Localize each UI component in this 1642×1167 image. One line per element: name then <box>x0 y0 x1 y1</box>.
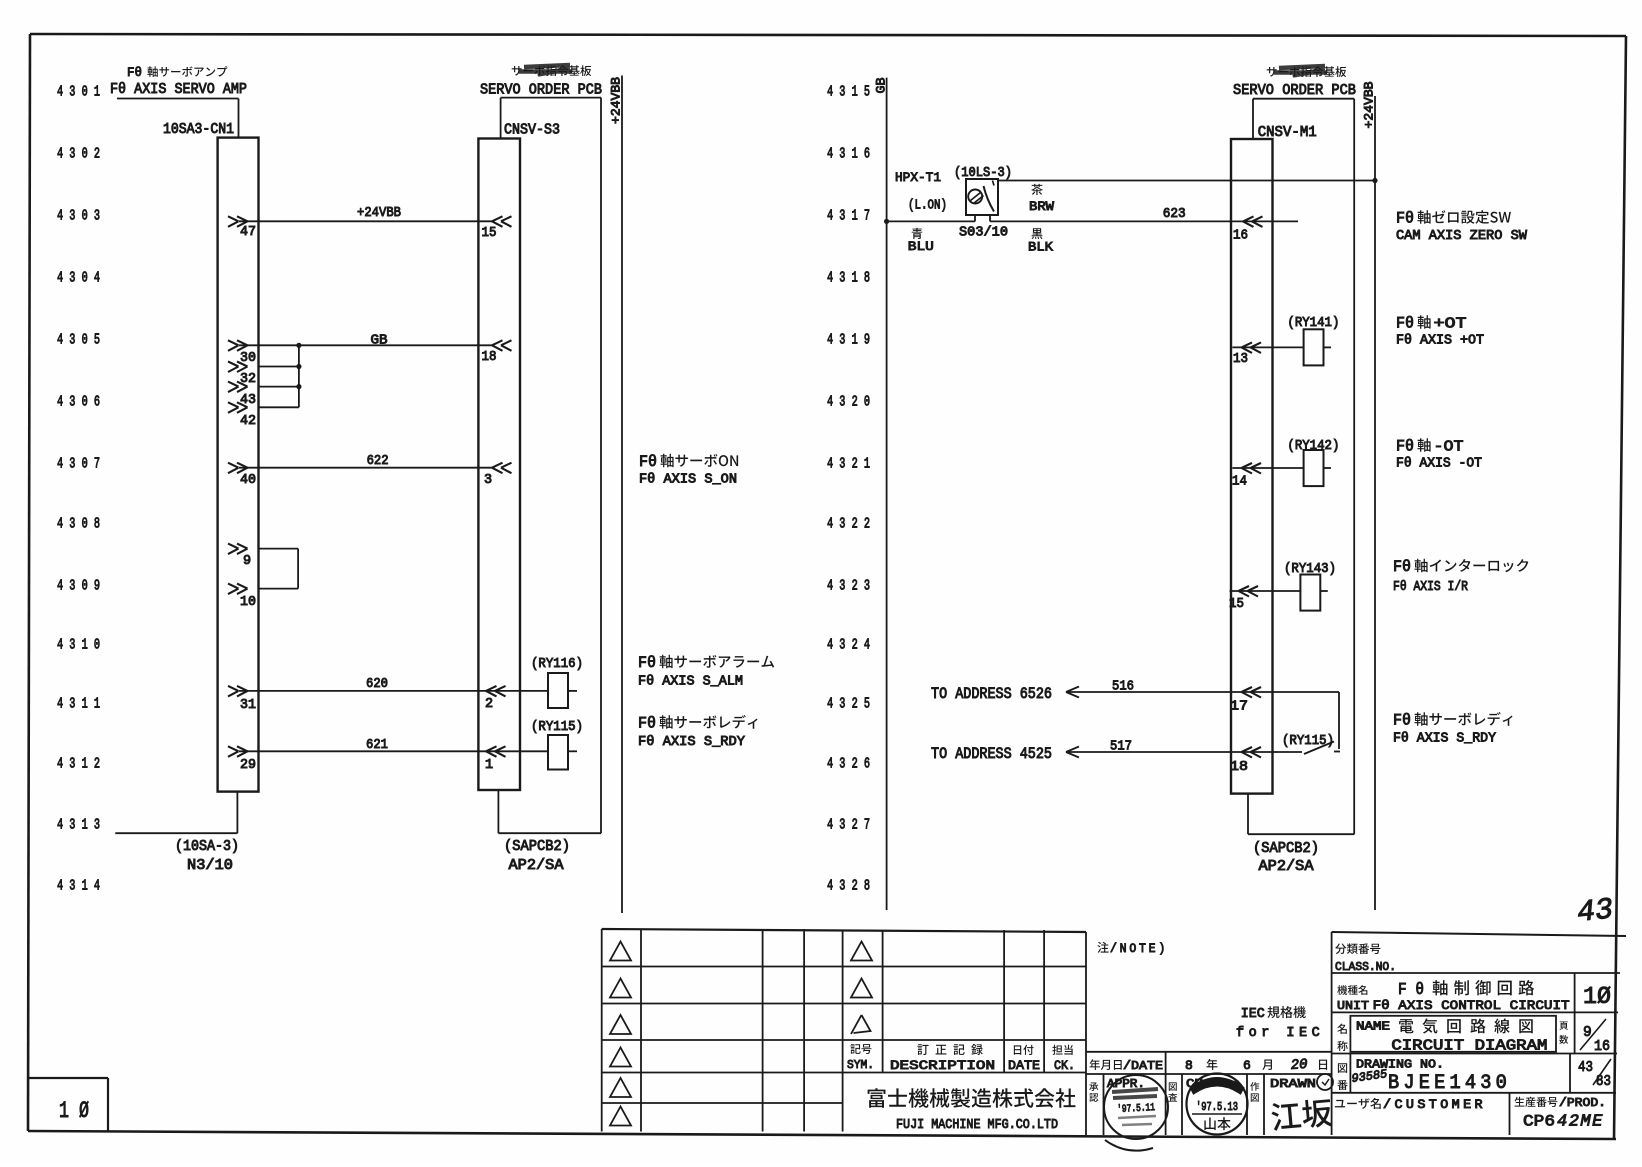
svg-text:/DATE: /DATE <box>1123 1059 1163 1073</box>
svg-text:10: 10 <box>240 595 256 610</box>
svg-text:4 3 0 4: 4 3 0 4 <box>57 271 100 287</box>
unit row <box>1337 985 1347 995</box>
svg-text:'97.5.11: '97.5.11 <box>1117 1102 1156 1116</box>
revision triangles left <box>610 942 631 961</box>
svg-text:(10SA-3): (10SA-3) <box>175 839 239 855</box>
svg-text:42ME: 42ME <box>1557 1113 1604 1132</box>
svg-text:DESCRIPTION: DESCRIPTION <box>890 1059 995 1073</box>
company name <box>868 1088 886 1107</box>
wire pin14 to relay RY142 <box>1232 467 1303 469</box>
svg-text:Fθ AXIS CONTROL CIRCUIT: Fθ AXIS CONTROL CIRCUIT <box>1373 998 1570 1013</box>
svg-text:+24VBB: +24VBB <box>357 206 401 221</box>
wire 620 pin31 to relay RY116 <box>239 690 548 692</box>
label servo order PCB (right, Japanese smudged) <box>1267 67 1277 77</box>
svg-text:Fθ AXIS S_ALM: Fθ AXIS S_ALM <box>638 675 743 690</box>
svg-text:+24VBB: +24VBB <box>609 77 624 124</box>
note box <box>1097 942 1108 953</box>
wire pin13 to relay RY141 <box>1232 346 1303 348</box>
SAPCB2 tail (left) <box>497 790 499 833</box>
svg-text:Fθ AXIS S_RDY: Fθ AXIS S_RDY <box>1393 732 1496 747</box>
svg-text:CK.: CK. <box>1054 1059 1075 1073</box>
svg-text:1Ø: 1Ø <box>1583 984 1611 1011</box>
sheet number box 10 <box>28 1077 108 1079</box>
revision triangles middle <box>851 942 872 961</box>
servo order PCB bracket (left) <box>501 97 601 99</box>
border frame <box>30 34 1626 36</box>
wire 622 pin40 to pin3 <box>239 467 492 469</box>
svg-text:623: 623 <box>1163 207 1186 222</box>
svg-text:(RY142): (RY142) <box>1287 439 1339 454</box>
customer row <box>1335 1100 1345 1108</box>
svg-text:Fθ: Fθ <box>1396 438 1414 456</box>
svg-text:4 3 2 8: 4 3 2 8 <box>827 879 870 895</box>
handwritten sheet mark 43 <box>1575 893 1614 931</box>
pin 43 stub <box>259 386 299 388</box>
svg-text:40: 40 <box>240 473 256 488</box>
svg-text:AP2/SA: AP2/SA <box>1259 859 1314 875</box>
pin 42 stub <box>259 406 299 408</box>
svg-text:Fθ AXIS -OT: Fθ AXIS -OT <box>1396 457 1482 472</box>
10SA-3 cable tail <box>236 792 238 834</box>
svg-text:4 3 1 1: 4 3 1 1 <box>57 697 100 713</box>
svg-text:BRW: BRW <box>1029 199 1054 214</box>
svg-text:4 3 1 9: 4 3 1 9 <box>827 333 870 349</box>
svg-text:HPX-T1: HPX-T1 <box>895 170 941 185</box>
checked stamp 97.5.13 Yamamoto <box>1187 1074 1248 1135</box>
name row <box>1337 1024 1347 1034</box>
svg-text:4 3 2 6: 4 3 2 6 <box>827 757 870 773</box>
RY115 contact branch <box>1338 692 1340 749</box>
svg-text:18: 18 <box>482 350 497 365</box>
svg-text:1: 1 <box>485 758 493 773</box>
svg-text:516: 516 <box>1112 680 1134 695</box>
svg-text:4 3 1 3: 4 3 1 3 <box>57 818 100 834</box>
svg-text:GB: GB <box>874 77 889 93</box>
revision header cells <box>850 1044 860 1054</box>
date row <box>1086 1051 1332 1053</box>
svg-text:(SAPCB2): (SAPCB2) <box>504 839 570 855</box>
svg-text:15: 15 <box>482 226 497 241</box>
svg-text:4 3 0 3: 4 3 0 3 <box>57 209 100 225</box>
svg-text:-OT: -OT <box>1434 439 1464 456</box>
svg-text:Fθ: Fθ <box>639 453 657 471</box>
svg-text:DRAWN: DRAWN <box>1270 1077 1316 1091</box>
svg-text:SERVO ORDER PCB: SERVO ORDER PCB <box>1233 82 1356 99</box>
svg-text:+OT: +OT <box>1434 316 1467 333</box>
wire color labels <box>912 228 923 239</box>
drawing no row <box>1338 1063 1347 1073</box>
svg-text:31: 31 <box>240 698 256 713</box>
svg-text:16: 16 <box>1233 229 1248 244</box>
svg-text:/NOTE): /NOTE) <box>1110 942 1168 956</box>
SAPCB2 tail (right) <box>1247 794 1249 835</box>
svg-text:Fθ AXIS S_ON: Fθ AXIS S_ON <box>639 473 737 488</box>
GB bus junction <box>298 345 300 407</box>
svg-text:/PROD.: /PROD. <box>1559 1097 1606 1110</box>
svg-text:F θ: F θ <box>1398 980 1424 999</box>
svg-text:42: 42 <box>240 414 256 429</box>
svg-text:CIRCUIT DIAGRAM: CIRCUIT DIAGRAM <box>1391 1039 1547 1055</box>
svg-text:Fθ AXIS +OT: Fθ AXIS +OT <box>1396 334 1484 349</box>
svg-text:8: 8 <box>1185 1058 1193 1073</box>
wire +24VBB pin47 to pin15 <box>239 220 492 222</box>
svg-text:(L.ON): (L.ON) <box>908 199 947 214</box>
svg-text:Fθ: Fθ <box>638 715 656 733</box>
svg-text:SERVO ORDER PCB: SERVO ORDER PCB <box>480 82 602 99</box>
svg-text:Fθ AXIS SERVO AMP: Fθ AXIS SERVO AMP <box>110 81 247 98</box>
svg-text:47: 47 <box>240 225 256 240</box>
svg-text:Fθ: Fθ <box>638 654 656 672</box>
servo amp bracket line <box>117 98 239 100</box>
svg-text:(RY115): (RY115) <box>531 720 583 735</box>
svg-text:CAM AXIS ZERO SW: CAM AXIS ZERO SW <box>1396 229 1528 244</box>
svg-text:29: 29 <box>240 758 256 773</box>
svg-text:4 3 1 6: 4 3 1 6 <box>827 147 870 163</box>
svg-text:S03/10: S03/10 <box>959 226 1008 241</box>
svg-text:Fθ: Fθ <box>1396 210 1414 228</box>
wire GB pin30 to pin18 <box>239 344 492 346</box>
revision table middle group <box>843 966 1086 968</box>
svg-text:43: 43 <box>1578 1060 1593 1076</box>
svg-text:/CUSTOMER: /CUSTOMER <box>1383 1098 1486 1112</box>
wire 621 pin29 to relay RY115 <box>239 750 548 752</box>
svg-text:AP2/SA: AP2/SA <box>509 858 564 874</box>
svg-text:4 3 1 4: 4 3 1 4 <box>57 879 100 895</box>
svg-text:DATE: DATE <box>1008 1059 1040 1073</box>
svg-text:4 3 2 3: 4 3 2 3 <box>827 579 870 595</box>
svg-text:517: 517 <box>1110 740 1132 755</box>
+24VBB power rail (left) <box>621 76 623 914</box>
svg-text:14: 14 <box>1232 475 1247 490</box>
svg-text:4 3 1 0: 4 3 1 0 <box>57 638 100 654</box>
label servo order PCB (left, Japanese smudged) <box>512 66 522 76</box>
svg-text:BLU: BLU <box>908 239 934 254</box>
servo order PCB bracket (right) <box>1253 98 1354 100</box>
svg-text:BLK: BLK <box>1028 240 1053 255</box>
svg-text:BJEE1430: BJEE1430 <box>1388 1072 1511 1095</box>
svg-text:Fθ: Fθ <box>1393 558 1411 576</box>
svg-text:43: 43 <box>1575 893 1614 931</box>
wire pin15 to relay RY143 <box>1230 590 1301 592</box>
svg-text:2: 2 <box>485 697 493 712</box>
svg-text:4 3 0 9: 4 3 0 9 <box>57 579 100 595</box>
svg-text:4 3 0 8: 4 3 0 8 <box>57 517 100 533</box>
revision table left group <box>602 929 1086 932</box>
svg-text:+24VBB: +24VBB <box>1362 81 1377 128</box>
wire 623 switch to pin16 <box>990 220 1298 222</box>
svg-text:20: 20 <box>1290 1057 1308 1074</box>
svg-text:'97.5.13: '97.5.13 <box>1196 1101 1238 1114</box>
svg-text:13: 13 <box>1233 352 1248 367</box>
svg-text:GB: GB <box>371 334 388 349</box>
svg-text:4 3 2 5: 4 3 2 5 <box>827 697 870 713</box>
svg-text:4 3 1 7: 4 3 1 7 <box>827 209 870 225</box>
svg-text:15: 15 <box>1229 597 1244 612</box>
svg-text:4 3 0 7: 4 3 0 7 <box>57 457 100 473</box>
svg-text:SYM.: SYM. <box>847 1058 874 1072</box>
svg-text:4 3 0 6: 4 3 0 6 <box>57 395 100 411</box>
svg-text:CLASS.NO.: CLASS.NO. <box>1335 961 1396 974</box>
svg-text:4 3 0 1: 4 3 0 1 <box>57 85 100 101</box>
wire GB rail to switch <box>887 220 975 222</box>
svg-text:4 3 2 2: 4 3 2 2 <box>827 517 870 533</box>
svg-text:621: 621 <box>366 738 388 753</box>
approval stamp (smudged) <box>1104 1075 1168 1139</box>
svg-text:17: 17 <box>1230 700 1248 715</box>
svg-text:Fθ: Fθ <box>1393 712 1411 730</box>
svg-text:Fθ AXIS I/R: Fθ AXIS I/R <box>1393 580 1468 595</box>
svg-text:IEC: IEC <box>1241 1007 1265 1022</box>
svg-text:NAME: NAME <box>1356 1021 1390 1034</box>
wire switch top to +24VBB rail <box>998 180 1375 182</box>
svg-text:(RY116): (RY116) <box>531 657 583 672</box>
svg-text:CNSV-S3: CNSV-S3 <box>504 123 560 139</box>
svg-text:N3/10: N3/10 <box>187 858 233 874</box>
svg-text:4 3 0 2: 4 3 0 2 <box>57 147 100 163</box>
svg-text:10SA3-CN1: 10SA3-CN1 <box>163 122 234 138</box>
svg-text:9: 9 <box>243 554 251 569</box>
svg-text:for IEC: for IEC <box>1236 1026 1324 1041</box>
svg-text:620: 620 <box>366 677 388 692</box>
pin 32 stub <box>259 366 299 368</box>
title block right section <box>1331 932 1333 1135</box>
svg-text:83: 83 <box>1596 1074 1611 1090</box>
approval stamps row <box>1103 1074 1105 1135</box>
svg-text:4 3 1 5: 4 3 1 5 <box>827 85 870 101</box>
svg-text:TO ADDRESS 6526: TO ADDRESS 6526 <box>931 685 1052 703</box>
svg-text:6: 6 <box>1243 1058 1251 1073</box>
svg-text:4 3 2 7: 4 3 2 7 <box>827 818 870 834</box>
svg-text:Fθ: Fθ <box>127 65 142 80</box>
pins 9-10 jumper loop <box>259 548 299 550</box>
svg-text:18: 18 <box>1230 760 1248 775</box>
svg-text:Fθ: Fθ <box>1396 315 1414 333</box>
svg-text:1 Ø: 1 Ø <box>59 1098 89 1124</box>
svg-text:4 3 1 8: 4 3 1 8 <box>827 271 870 287</box>
handwritten signature Esaka <box>1271 1098 1333 1132</box>
svg-text:4 3 2 4: 4 3 2 4 <box>827 638 870 654</box>
svg-text:4 3 2 0: 4 3 2 0 <box>827 395 870 411</box>
svg-text:(SAPCB2): (SAPCB2) <box>1253 841 1319 857</box>
svg-text:FUJI MACHINE MFG.CO.LTD: FUJI MACHINE MFG.CO.LTD <box>896 1118 1058 1133</box>
svg-text:4 3 2 1: 4 3 2 1 <box>827 457 870 473</box>
svg-text:4 3 1 2: 4 3 1 2 <box>57 757 100 773</box>
svg-text:UNIT: UNIT <box>1337 999 1369 1013</box>
svg-text:3: 3 <box>484 473 492 488</box>
GB power rail (right) <box>886 78 888 910</box>
svg-text:4 3 0 5: 4 3 0 5 <box>57 333 100 349</box>
svg-text:Fθ AXIS S_RDY: Fθ AXIS S_RDY <box>638 735 745 750</box>
svg-text:622: 622 <box>367 454 389 469</box>
svg-text:CP6: CP6 <box>1523 1113 1555 1131</box>
svg-text:TO ADDRESS 4525: TO ADDRESS 4525 <box>931 745 1052 763</box>
+24VBB power rail (right) <box>1374 96 1376 910</box>
svg-text:(RY115): (RY115) <box>1282 734 1334 749</box>
switch bottom stubs <box>974 215 976 221</box>
